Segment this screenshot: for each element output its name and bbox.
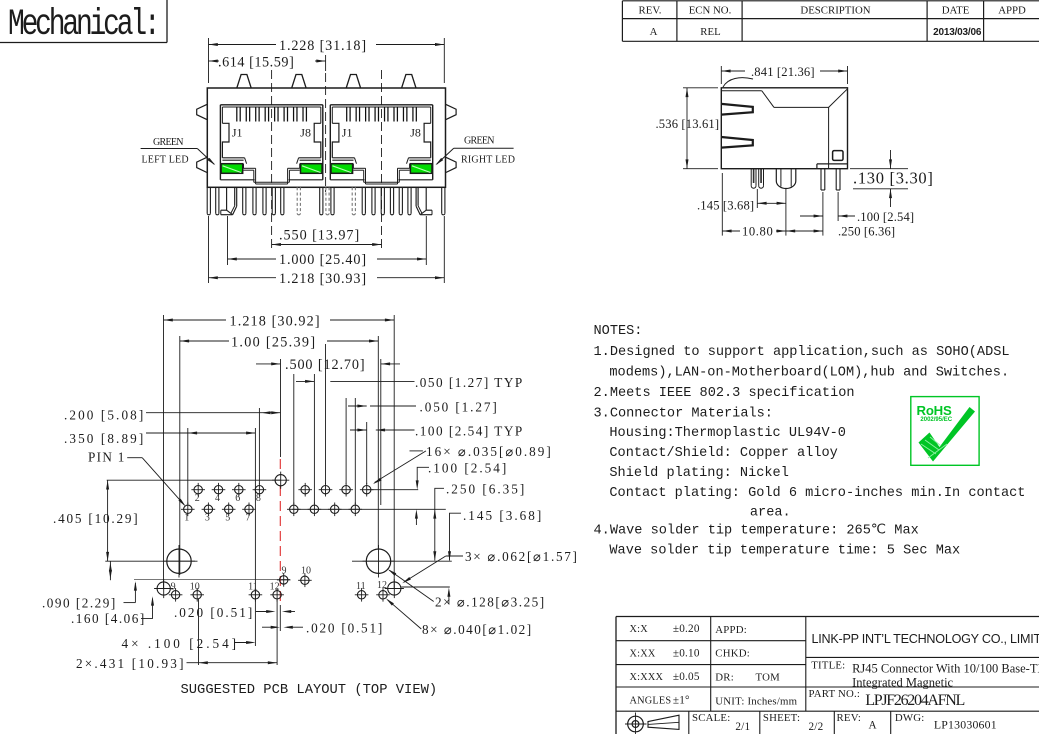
svg-text:.145 [3.68]: .145 [3.68] (697, 199, 754, 213)
svg-text:NOTES:: NOTES: (594, 324, 643, 339)
svg-text:CHKD:: CHKD: (715, 648, 750, 660)
svg-text:.405 [10.29]: .405 [10.29] (53, 511, 139, 526)
svg-text:1.218 [30.92]: 1.218 [30.92] (230, 313, 321, 329)
svg-text:.614 [15.59]: .614 [15.59] (218, 55, 294, 71)
svg-text:.841 [21.36]: .841 [21.36] (751, 65, 815, 79)
svg-text:1: 1 (184, 513, 189, 524)
svg-text:11: 11 (356, 581, 366, 592)
svg-text:1.00 [25.39]: 1.00 [25.39] (231, 334, 316, 350)
svg-text:APPD: APPD (998, 5, 1026, 17)
svg-text:.500 [12.70]: .500 [12.70] (285, 357, 366, 373)
svg-text:Contact plating: Gold 6 micro-: Contact plating: Gold 6 micro-inches min… (609, 486, 1025, 501)
svg-text:2× ⌀.128[⌀3.25]: 2× ⌀.128[⌀3.25] (435, 595, 546, 610)
svg-text:4× .100 [2.54]: 4× .100 [2.54] (122, 636, 240, 651)
svg-text:.100 [2.54]: .100 [2.54] (857, 210, 914, 224)
svg-text:GREEN: GREEN (464, 136, 494, 147)
svg-text:.160 [4.06]: .160 [4.06] (71, 611, 146, 626)
svg-text:±0.20: ±0.20 (673, 623, 700, 635)
svg-text:J8: J8 (410, 126, 421, 140)
svg-text:.250 [6.35]: .250 [6.35] (446, 481, 526, 496)
svg-text:PART NO.:: PART NO.: (809, 688, 861, 700)
svg-text:SUGGESTED PCB LAYOUT (TOP VIEW: SUGGESTED PCB LAYOUT (TOP VIEW) (181, 682, 438, 698)
svg-text:1.000 [25.40]: 1.000 [25.40] (279, 252, 367, 268)
svg-text:GREEN: GREEN (153, 137, 183, 148)
svg-text:2013/03/06: 2013/03/06 (933, 27, 982, 38)
svg-text:APPD:: APPD: (715, 624, 747, 636)
svg-text:.130 [3.30]: .130 [3.30] (853, 169, 934, 188)
svg-text:REV.: REV. (639, 5, 662, 17)
svg-text:3.Connector Materials:: 3.Connector Materials: (594, 407, 773, 422)
svg-text:3: 3 (205, 513, 210, 524)
svg-text:.536 [13.61]: .536 [13.61] (656, 117, 720, 131)
svg-text:8: 8 (256, 493, 261, 504)
svg-text:Housing:Thermoplastic UL94V-0: Housing:Thermoplastic UL94V-0 (609, 426, 846, 441)
svg-text:5: 5 (225, 513, 230, 524)
svg-text:SCALE:: SCALE: (692, 712, 730, 724)
svg-text:2/1: 2/1 (735, 721, 750, 733)
svg-text:RJ45 Connector With 10/100 Bas: RJ45 Connector With 10/100 Base-TX (852, 662, 1039, 676)
svg-text:LEFT LED: LEFT LED (142, 155, 189, 166)
svg-text:J1: J1 (232, 126, 243, 140)
svg-text:modems),LAN-on-Motherboard(LOM: modems),LAN-on-Motherboard(LOM),hub and … (609, 366, 1009, 381)
svg-text:area.: area. (750, 506, 791, 521)
svg-text:6: 6 (235, 493, 240, 504)
svg-text:.020 [0.51]: .020 [0.51] (306, 621, 384, 636)
svg-text:A: A (869, 720, 877, 732)
svg-text:.200 [5.08]: .200 [5.08] (64, 408, 145, 423)
svg-text:J1: J1 (342, 126, 353, 140)
svg-text:X:XX: X:XX (630, 648, 656, 659)
svg-text:REL: REL (700, 26, 720, 38)
svg-text:J8: J8 (300, 126, 311, 140)
svg-text:8× ⌀.040[⌀1.02]: 8× ⌀.040[⌀1.02] (422, 622, 533, 637)
svg-text:4.Wave solder tip temperature:: 4.Wave solder tip temperature: 265℃ Max (594, 524, 919, 539)
svg-text:9: 9 (171, 582, 176, 593)
svg-text:±0.05: ±0.05 (673, 671, 700, 683)
svg-text:.145 [3.68]: .145 [3.68] (463, 508, 543, 523)
svg-text:10: 10 (190, 582, 200, 593)
svg-text:.100 [2.54] TYP: .100 [2.54] TYP (415, 423, 524, 438)
svg-text:12: 12 (270, 582, 280, 593)
svg-text:DESCRIPTION: DESCRIPTION (800, 5, 870, 17)
svg-text:X:X: X:X (630, 624, 649, 635)
svg-text:LPJF26204AFNL: LPJF26204AFNL (865, 692, 964, 709)
svg-text:±0.10: ±0.10 (673, 647, 700, 659)
svg-text:1.218 [30.93]: 1.218 [30.93] (279, 271, 367, 287)
svg-text:DWG:: DWG: (895, 712, 925, 724)
svg-text:RoHS: RoHS (917, 403, 953, 418)
svg-text:Mechanical:: Mechanical: (8, 4, 158, 46)
svg-text:10.80: 10.80 (742, 225, 773, 239)
svg-text:2×.431 [10.93]: 2×.431 [10.93] (76, 656, 186, 671)
svg-text:PIN 1: PIN 1 (88, 450, 126, 465)
svg-text:.050 [1.27] TYP: .050 [1.27] TYP (415, 375, 524, 390)
svg-text:TOM: TOM (756, 672, 781, 684)
svg-text:Contact/Shield: Copper alloy: Contact/Shield: Copper alloy (609, 446, 837, 461)
svg-text:.050 [1.27]: .050 [1.27] (420, 399, 499, 414)
svg-text:Wave solder tip temperature ti: Wave solder tip temperature time: 5 Sec … (609, 544, 960, 559)
svg-text:12: 12 (377, 580, 387, 591)
svg-text:Shield plating: Nickel: Shield plating: Nickel (609, 466, 788, 481)
svg-text:A: A (650, 26, 658, 38)
svg-text:RIGHT LED: RIGHT LED (461, 155, 515, 166)
svg-text:±1°: ±1° (673, 695, 690, 707)
svg-text:11: 11 (248, 582, 258, 593)
svg-text:UNIT: Inches/mm: UNIT: Inches/mm (715, 696, 797, 708)
svg-text:2: 2 (195, 493, 200, 504)
svg-text:.090 [2.29]: .090 [2.29] (42, 596, 117, 611)
svg-text:REV:: REV: (837, 712, 862, 724)
svg-text:3× ⌀.062[⌀1.57]: 3× ⌀.062[⌀1.57] (465, 549, 579, 564)
svg-text:ECN NO.: ECN NO. (689, 5, 732, 17)
svg-text:2002/95/EC: 2002/95/EC (920, 417, 952, 423)
svg-text:DATE: DATE (942, 5, 970, 17)
svg-text:LP13030601: LP13030601 (934, 718, 997, 732)
svg-text:1.228 [31.18]: 1.228 [31.18] (279, 38, 367, 54)
svg-text:2.Meets IEEE 802.3 specificati: 2.Meets IEEE 802.3 specification (594, 386, 855, 401)
svg-text:4: 4 (215, 493, 220, 504)
svg-text:.550 [13.97]: .550 [13.97] (279, 228, 360, 244)
svg-text:LINK-PP INT’L TECHNOLOGY CO.,: LINK-PP INT’L TECHNOLOGY CO., LIMITED (812, 632, 1039, 646)
svg-text:X:XXX: X:XXX (630, 672, 664, 683)
svg-text:DR:: DR: (715, 672, 734, 684)
svg-text:Integrated Magnetic: Integrated Magnetic (852, 676, 953, 690)
svg-text:ANGLES: ANGLES (630, 696, 672, 707)
svg-text:1.Designed to support applicat: 1.Designed to support application,such a… (594, 345, 1010, 360)
svg-text:SHEET:: SHEET: (763, 712, 800, 724)
svg-text:2/2: 2/2 (809, 721, 824, 733)
svg-text:.250 [6.36]: .250 [6.36] (838, 225, 895, 239)
svg-text:7: 7 (246, 513, 251, 524)
svg-text:TITLE:: TITLE: (811, 660, 845, 672)
svg-text:.100 [2.54]: .100 [2.54] (428, 460, 508, 475)
svg-text:16× ⌀.035[⌀0.89]: 16× ⌀.035[⌀0.89] (426, 444, 553, 459)
svg-text:.350 [8.89]: .350 [8.89] (64, 431, 145, 446)
svg-text:10: 10 (301, 566, 311, 577)
svg-text:9: 9 (282, 566, 287, 577)
svg-text:.020 [0.51]: .020 [0.51] (174, 605, 254, 620)
